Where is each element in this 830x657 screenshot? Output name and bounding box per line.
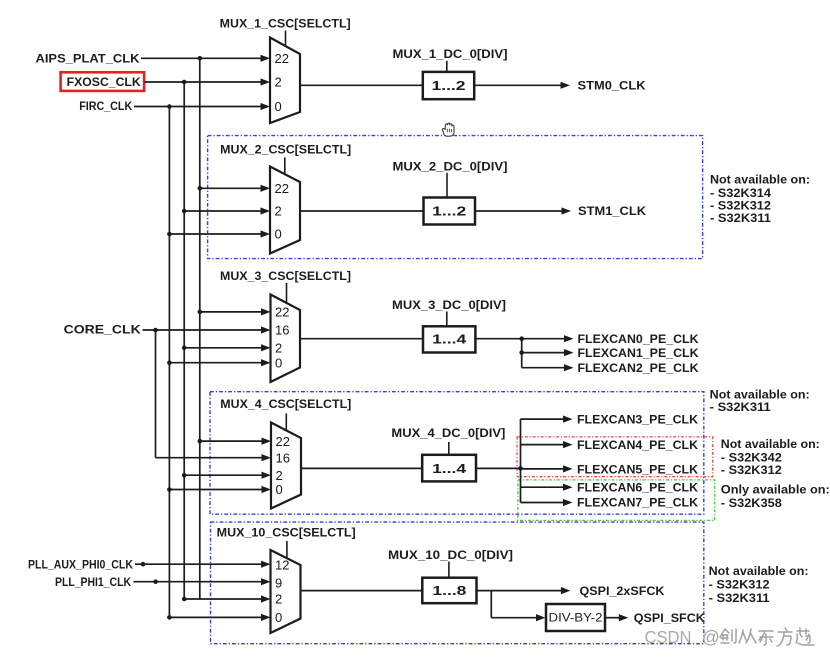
arrow FLEXCAN4_PE_CLK (563, 441, 573, 448)
arrow into MUX_10 pin 0 (261, 614, 271, 621)
wire DIV-BY-2 to QSPI_SFCK (605, 617, 620, 619)
svg-text:FXOSC_CLK: FXOSC_CLK (67, 75, 141, 89)
leader MUX_3_DC_0 label (446, 312, 448, 327)
junction B1 (182, 80, 187, 85)
svg-text:STM1_CLK: STM1_CLK (578, 204, 646, 218)
watermark hanzi 起 (796, 628, 814, 645)
mux MUX_10 (271, 550, 301, 633)
junction PLL1 (153, 579, 158, 584)
svg-text:AIPS_PLAT_CLK: AIPS_PLAT_CLK (36, 52, 140, 66)
svg-text:- S32K312: - S32K312 (721, 463, 782, 477)
arrow into MUX_1 pin 0 (261, 103, 271, 110)
svg-text:2: 2 (275, 592, 282, 607)
region box MUX_10 section (blue dashed) (211, 522, 704, 644)
wire bus B to MUX_10 in 2 (184, 598, 262, 600)
wire to FLEXCAN3_PE_CLK (521, 418, 564, 420)
svg-text:MUX_4_DC_0[DIV]: MUX_4_DC_0[DIV] (391, 426, 505, 440)
arrow QSPI_SFCK (619, 614, 629, 621)
svg-text:MUX_3_CSC[SELCTL]: MUX_3_CSC[SELCTL] (220, 269, 351, 283)
arrow into MUX_1 pin 22 (261, 55, 271, 62)
wire FXOSC_CLK to MUX_1 in 2 (145, 81, 262, 83)
arrow into MUX_3 pin 16 (261, 326, 271, 333)
svg-text:Not available on:: Not available on: (710, 173, 810, 187)
watermark hanzi 东 (759, 631, 773, 645)
arrow into MUX_4 pin 0 (262, 486, 272, 493)
arrow FLEXCAN3_PE_CLK (563, 416, 573, 423)
arrow FLEXCAN5_PE_CLK (563, 465, 573, 472)
arrow into MUX_3 pin 2 (261, 344, 271, 351)
svg-text:2: 2 (275, 341, 282, 356)
wire bus C to MUX_2 in 0 (169, 233, 261, 235)
wire MUX_3 out to divider (300, 338, 423, 340)
leader MUX_2 label (284, 157, 286, 173)
junction A3 (198, 310, 203, 315)
svg-text:FLEXCAN3_PE_CLK: FLEXCAN3_PE_CLK (577, 412, 698, 426)
junction A1 (198, 56, 203, 61)
svg-text:FIRC_CLK: FIRC_CLK (79, 99, 132, 113)
svg-text:MUX_1_CSC[SELCTL]: MUX_1_CSC[SELCTL] (220, 16, 351, 30)
wire bus B to MUX_4 in 2 (184, 474, 262, 476)
wire to FLEXCAN7_PE_CLK (521, 502, 564, 504)
arrow into DIV-BY-2 (536, 614, 546, 621)
leader MUX_10_DC_0 label (448, 562, 450, 578)
wire divider to QSPI_2xSFCK (477, 590, 562, 592)
wire to FLEXCAN4_PE_CLK (521, 444, 564, 446)
arrow into MUX_2 pin 0 (261, 230, 271, 237)
svg-text:MUX_1_DC_0[DIV]: MUX_1_DC_0[DIV] (393, 47, 508, 61)
divider MUX_4_DC_0 box (422, 455, 476, 482)
leader MUX_4 label (285, 413, 287, 431)
wire CORE_CLK to MUX_3 in 16 (143, 329, 263, 331)
svg-text:2: 2 (276, 468, 283, 483)
svg-text:- S32K312: - S32K312 (709, 578, 770, 592)
arrow QSPI_2xSFCK (561, 587, 571, 594)
wire branch down to DIV-BY-2 (490, 591, 492, 618)
watermark hanzi 方 (777, 628, 792, 646)
svg-text:@: @ (702, 627, 720, 647)
arrow FLEXCAN1_PE_CLK (564, 349, 574, 356)
svg-text:Only available on:: Only available on: (721, 482, 830, 496)
junction C1 (167, 104, 172, 109)
svg-text:MUX_10_DC_0[DIV]: MUX_10_DC_0[DIV] (388, 548, 513, 562)
arrow STM1_CLK (562, 207, 572, 214)
arrow into MUX_3 pin 0 (261, 359, 271, 366)
svg-text:22: 22 (275, 51, 289, 66)
junction C3 (167, 360, 172, 365)
leader MUX_4_DC_0 label (448, 442, 450, 455)
arrow into MUX_4 pin 2 (262, 472, 272, 479)
svg-text:- S32K311: - S32K311 (709, 591, 770, 605)
svg-text:FLEXCAN2_PE_CLK: FLEXCAN2_PE_CLK (578, 361, 699, 375)
svg-text:0: 0 (275, 99, 282, 114)
svg-text:0: 0 (275, 610, 282, 625)
wire MUX_4 out to divider (301, 467, 422, 469)
leader MUX_10 label (286, 541, 288, 558)
svg-text:- S32K311: - S32K311 (710, 400, 771, 414)
svg-text:PLL_AUX_PHI0_CLK: PLL_AUX_PHI0_CLK (28, 557, 133, 571)
wire divider to STM0_CLK (474, 84, 561, 86)
wire bus B to MUX_2 in 2 (184, 210, 261, 212)
wire MUX_2 out to divider (300, 210, 424, 212)
junction B3 (182, 346, 187, 351)
wire bus A to MUX_4 in 22 (200, 440, 263, 442)
svg-text:- S32K311: - S32K311 (710, 211, 771, 225)
svg-text:1...8: 1...8 (432, 583, 466, 598)
svg-text:16: 16 (275, 323, 289, 338)
wire into DIV-BY-2 (491, 617, 536, 619)
arrow FLEXCAN7_PE_CLK (563, 499, 573, 506)
wire bus D to MUX_4 in 16 (156, 457, 263, 459)
svg-text:0: 0 (275, 355, 282, 370)
junction B2 (182, 209, 187, 214)
wire to FLEXCAN0_PE_CLK (522, 338, 565, 340)
svg-text:- S32K358: - S32K358 (721, 496, 782, 510)
wire to FLEXCAN5_PE_CLK (521, 468, 564, 470)
junction fan4 (518, 466, 523, 471)
svg-text:QSPI_SFCK: QSPI_SFCK (634, 611, 705, 625)
arrow STM0_CLK (561, 82, 571, 89)
svg-text:FLEXCAN7_PE_CLK: FLEXCAN7_PE_CLK (577, 496, 698, 510)
svg-text:22: 22 (276, 434, 290, 449)
svg-text:CORE_CLK: CORE_CLK (64, 323, 141, 337)
svg-text:MUX_2_DC_0[DIV]: MUX_2_DC_0[DIV] (393, 159, 508, 173)
wire PLL_PHI1_CLK to MUX_10 in 9 (134, 581, 263, 583)
svg-text:QSPI_2xSFCK: QSPI_2xSFCK (580, 584, 665, 598)
svg-text:STM0_CLK: STM0_CLK (578, 79, 646, 93)
wire bus C to MUX_3 in 0 (169, 362, 262, 364)
leader MUX_2_DC_0 label (446, 173, 448, 198)
svg-text:22: 22 (275, 181, 289, 196)
svg-text:2: 2 (275, 75, 282, 90)
wire fan4 vertical (520, 419, 522, 502)
wire vertical bus C (FIRC_CLK) (168, 107, 170, 618)
junction C4 (167, 487, 172, 492)
wire bus A to MUX_3 in 22 (200, 311, 262, 313)
wire bus C to MUX_10 in 0 (169, 616, 262, 618)
svg-text:FLEXCAN5_PE_CLK: FLEXCAN5_PE_CLK (577, 462, 698, 476)
wire divider to fan node (476, 467, 521, 469)
svg-text:CSDN: CSDN (645, 627, 692, 647)
svg-text:MUX_3_DC_0[DIV]: MUX_3_DC_0[DIV] (392, 298, 506, 312)
mux MUX_1 (270, 38, 300, 124)
arrow into MUX_4 pin 16 (262, 454, 272, 461)
junction fan3 (519, 336, 524, 341)
svg-text:MUX_10_CSC[SELCTL]: MUX_10_CSC[SELCTL] (217, 525, 356, 539)
cursor hand icon (442, 123, 454, 136)
svg-text:2: 2 (275, 204, 282, 219)
divider MUX_2_DC_0 box (424, 198, 476, 225)
junction fan3b (519, 350, 524, 355)
wire bus B to MUX_3 in 2 (184, 347, 262, 349)
wire vertical bus B (FXOSC_CLK) (183, 82, 185, 599)
arrow into MUX_3 pin 22 (261, 308, 271, 315)
wire divider to fan node (475, 338, 521, 340)
svg-text:Not available on:: Not available on: (709, 564, 809, 578)
divider MUX_1_DC_0 box (423, 72, 474, 99)
mux MUX_4 (271, 423, 301, 509)
svg-text:1...2: 1...2 (432, 204, 466, 219)
svg-text:FLEXCAN0_PE_CLK: FLEXCAN0_PE_CLK (578, 332, 699, 346)
svg-text:16: 16 (276, 450, 290, 465)
svg-text:FLEXCAN6_PE_CLK: FLEXCAN6_PE_CLK (577, 480, 698, 494)
wire bus A to MUX_2 in 22 (200, 187, 262, 189)
wire MUX_1 out to divider (300, 84, 423, 86)
junction B10 (182, 597, 187, 602)
region box MUX_2 section (blue dashed) (208, 136, 703, 259)
svg-text:12: 12 (275, 557, 289, 572)
divider MUX_10_DC_0 box (422, 578, 476, 604)
junction B4 (182, 473, 187, 478)
junction D1 (153, 328, 158, 333)
junction A4 (198, 439, 203, 444)
arrow into MUX_10 pin 2 (261, 595, 271, 602)
arrow FLEXCAN2_PE_CLK (564, 364, 574, 371)
region box FLEXCAN6/7 (green dashed) (518, 480, 715, 521)
wire to FLEXCAN1_PE_CLK (522, 352, 565, 354)
svg-text:0: 0 (275, 227, 282, 242)
highlight box around FXOSC_CLK (red) (61, 72, 145, 91)
wire divider to STM1_CLK (475, 210, 563, 212)
arrow into MUX_10 pin 9 (261, 578, 271, 585)
leader MUX_3 label (286, 283, 288, 303)
leader MUX_1_DC_0 label (446, 61, 448, 72)
mux MUX_2 (270, 167, 300, 254)
svg-text:1...2: 1...2 (432, 78, 466, 93)
wire PLL_AUX_PHI0_CLK to MUX_10 in 12 (135, 563, 262, 565)
wire to FLEXCAN6_PE_CLK (521, 486, 564, 488)
svg-text:1...4: 1...4 (432, 332, 467, 347)
junction A2 (198, 186, 203, 191)
arrow FLEXCAN0_PE_CLK (564, 335, 574, 342)
arrow into MUX_2 pin 2 (261, 207, 271, 214)
svg-text:DIV-BY-2: DIV-BY-2 (549, 613, 603, 625)
leader MUX_1 label (285, 31, 287, 47)
arrow into MUX_1 pin 2 (261, 78, 271, 85)
arrow into MUX_4 pin 22 (262, 438, 272, 445)
svg-text:1...4: 1...4 (432, 461, 467, 476)
svg-text:MUX_2_CSC[SELCTL]: MUX_2_CSC[SELCTL] (220, 143, 351, 157)
arrow into MUX_10 pin 12 (261, 561, 271, 568)
svg-text:PLL_PHI1_CLK: PLL_PHI1_CLK (55, 575, 131, 589)
region box MUX_4 section (blue dashed) (210, 392, 704, 515)
wire vertical bus D (CORE_CLK) (155, 330, 157, 458)
svg-text:FLEXCAN4_PE_CLK: FLEXCAN4_PE_CLK (577, 438, 698, 452)
arrow FLEXCAN6_PE_CLK (563, 484, 573, 491)
wire AIPS_PLAT_CLK to MUX_1 in 22 (141, 57, 262, 59)
svg-text:Not available on:: Not available on: (721, 437, 820, 451)
svg-text:FLEXCAN1_PE_CLK: FLEXCAN1_PE_CLK (578, 346, 699, 360)
svg-text:9: 9 (275, 575, 282, 590)
svg-text:0: 0 (276, 482, 283, 497)
junction PLL0 (141, 562, 146, 567)
watermark hanzi 剑 (720, 629, 736, 643)
wire vertical bus A (AIPS_PLAT_CLK) (199, 58, 201, 599)
wire FIRC_CLK to MUX_1 in 0 (134, 106, 262, 108)
svg-text:22: 22 (275, 305, 289, 320)
junction C10 (167, 615, 172, 620)
wire fan3 vertical (521, 339, 523, 368)
wire to FLEXCAN2_PE_CLK (522, 367, 565, 369)
wire MUX_10 out to divider (301, 590, 423, 592)
arrow into MUX_2 pin 22 (261, 185, 271, 192)
mux MUX_3 (271, 295, 301, 383)
wire bus C to MUX_4 in 0 (169, 489, 262, 491)
divider MUX_3_DC_0 box (423, 326, 475, 352)
svg-text:MUX_4_CSC[SELCTL]: MUX_4_CSC[SELCTL] (220, 397, 351, 411)
divider DIV-BY-2 box (546, 604, 605, 631)
region box FLEXCAN4/5 (red dashed) (517, 437, 713, 477)
watermark hanzi 从 (739, 629, 756, 643)
junction C2 (167, 232, 172, 237)
